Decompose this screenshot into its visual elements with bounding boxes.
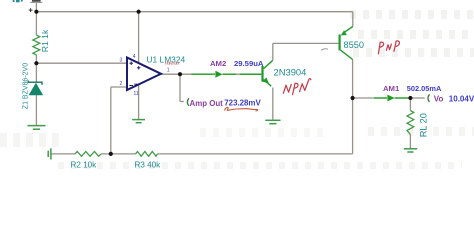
svg-text:1: 1 [167,68,170,74]
svg-text:10.04V: 10.04V [449,94,474,103]
svg-text:2N3904: 2N3904 [274,66,307,77]
svg-text:8550: 8550 [344,40,364,50]
svg-text:723.28mV: 723.28mV [224,99,261,108]
svg-text:RL 20: RL 20 [418,113,428,137]
svg-text:11: 11 [134,91,139,97]
svg-text:502.05mA: 502.05mA [407,84,442,93]
svg-text:Ideal: Ideal [165,61,179,65]
svg-text:Vo: Vo [434,94,444,103]
svg-text:29.59uA: 29.59uA [234,59,264,68]
svg-text:AM1: AM1 [383,84,400,93]
svg-text:AM2: AM2 [210,59,226,68]
svg-text:R2 10k: R2 10k [71,160,98,169]
svg-text:R1 1k: R1 1k [40,29,50,52]
svg-text:Z1 BZV86-2V0: Z1 BZV86-2V0 [22,63,29,109]
svg-text:4: 4 [133,54,136,60]
svg-text:Amp Out: Amp Out [190,99,224,108]
svg-text:3: 3 [120,58,123,64]
svg-text:2: 2 [120,81,123,87]
svg-text:R3 40k: R3 40k [135,160,162,169]
